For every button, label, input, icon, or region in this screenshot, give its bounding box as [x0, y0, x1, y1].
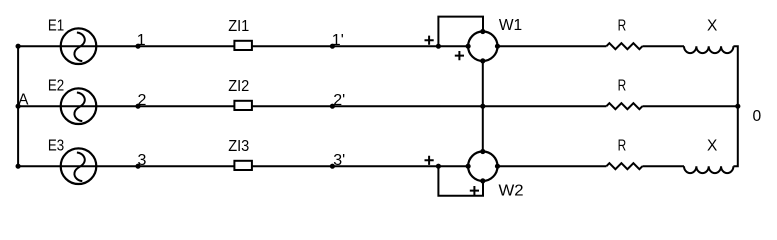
svg-text:2': 2' — [333, 92, 345, 109]
svg-text:W1: W1 — [499, 17, 522, 34]
svg-text:1: 1 — [137, 32, 146, 49]
svg-text:X: X — [707, 17, 718, 34]
svg-text:E3: E3 — [48, 138, 64, 155]
svg-text:3': 3' — [333, 152, 345, 169]
svg-text:ZI3: ZI3 — [228, 138, 249, 155]
svg-text:3: 3 — [138, 152, 147, 169]
svg-text:ZI2: ZI2 — [228, 78, 249, 95]
svg-text:E1: E1 — [48, 18, 64, 35]
svg-text:0: 0 — [753, 108, 762, 125]
svg-text:1': 1' — [332, 32, 344, 49]
svg-text:R: R — [618, 78, 627, 95]
svg-text:R: R — [618, 18, 627, 35]
svg-text:E2: E2 — [48, 78, 64, 95]
svg-text:2: 2 — [138, 92, 147, 109]
svg-text:ZI1: ZI1 — [228, 18, 249, 35]
svg-text:X: X — [707, 137, 718, 154]
svg-text:R: R — [618, 138, 627, 155]
svg-text:W2: W2 — [499, 183, 524, 200]
svg-text:A: A — [18, 91, 29, 108]
